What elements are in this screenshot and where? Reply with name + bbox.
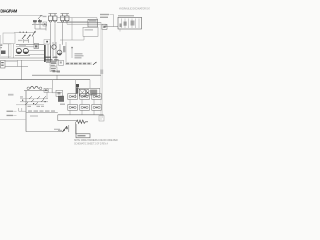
wire long bus upper [32,74,101,76]
wire fuse F3 lead [62,23,64,45]
resistor R1 [76,120,88,123]
wire fuse F1 lead [50,23,52,45]
connector trunk end [99,116,104,122]
lamp L2 [86,89,89,92]
wire mid bus 2 [16,46,34,48]
svg-text:NOTE: WIRE HARNESS COLOR CODE: NOTE: WIRE HARNESS COLOR CODE PER [74,139,118,142]
connector CN4 [59,60,64,65]
wire gauge lead [13,44,15,58]
horn H1 [33,20,37,21]
wire solenoid bus [58,114,104,116]
node ring right [39,87,42,90]
connector hatch bar [63,46,65,52]
motor M3 [52,45,56,49]
node trunk splice [100,70,103,75]
motor M1 [16,48,21,53]
fuse F1 [49,14,53,23]
fuse F3 [61,14,65,23]
label motors [19,44,26,45]
svg-text:HYDRAULIC EXCAVATOR SYS: HYDRAULIC EXCAVATOR SYS [119,8,150,11]
solenoid SV6 [92,105,102,111]
wire horn bus [32,24,47,26]
wire cn3 top [5,60,18,62]
connector CN5 [43,22,47,26]
wire label riser b [21,108,23,111]
wire lower run [26,112,58,114]
wire solenoid links [70,99,94,114]
box control unit outline [52,80,62,93]
label To cab harness [100,14,109,15]
switch S1 block [1,44,12,57]
wire label riser a [18,108,20,111]
wire top rule [0,15,43,17]
switch blades [25,96,46,105]
solenoid SV1 [68,94,78,100]
switch bank rows [20,98,48,100]
connector CN8 [49,89,53,93]
label note faint [30,115,38,116]
wire branch right [104,24,118,26]
wire horn leads [35,25,46,31]
wire relay lead [119,29,121,32]
resistor block R2 [90,90,97,96]
relay box K2 outline [83,27,98,36]
diode D2 [27,35,31,43]
wire fuse F2 lead [54,23,56,45]
junction bus bar J1 [44,45,46,62]
switch S4 [56,90,63,96]
wire bus row d [5,59,44,61]
wire left margin stub [0,35,2,44]
flasher unit FL1 [38,15,42,21]
fuse F2 [53,14,57,23]
connector CN6 [44,40,50,45]
solenoid SV3 [92,94,102,100]
box battery B1 outline [3,33,15,43]
wire motor base [15,55,30,57]
diode D4 [93,62,97,65]
wire fuse top tie 2 [61,13,70,15]
wire gauge base [24,90,48,92]
page background [0,0,150,150]
label FL1 [43,16,47,17]
label bottom faint [54,129,60,130]
coil gauge arcs [30,86,34,89]
wire diode feed [14,32,36,34]
node tick 2 [22,32,25,33]
wire stub bottom left [0,119,26,121]
wire bus link [56,75,58,80]
label To fuel sender [7,111,14,112]
label diode bank [18,40,23,41]
wire bus row c [0,57,44,59]
node tick 3 [25,32,28,33]
wire main drop left [25,91,27,132]
wire fuse F4 lead [66,23,68,24]
wire label tie [19,110,26,112]
resistor R3 small [58,130,62,131]
wire drop a [17,60,19,67]
wire lamp end drop [99,88,101,96]
wire drop cn7 [46,92,48,99]
wire box right edge [75,80,77,98]
label solenoid block [60,104,65,105]
solenoid SV2 [80,94,90,100]
wire fuse top tie 1 [49,13,58,15]
wire mid bus 1 [16,44,44,46]
motor M2 [23,48,28,53]
wire bus row b [28,54,44,56]
lamp box L1 [79,89,85,96]
connector CN3 [1,61,6,69]
label left small [8,94,14,96]
wire drop b [21,60,23,80]
wire label leader [110,14,114,16]
horn H2 [38,20,42,21]
motor M4 [57,50,62,55]
wire bottom run [26,131,62,133]
node splice marks [53,70,56,72]
node specks [22,100,23,101]
wire ground drop [74,122,76,134]
wire upper loop [57,18,97,40]
connector CN7 [44,88,48,92]
label instrument row [65,62,92,65]
switch S3 [34,44,39,49]
diode D3 [32,31,36,44]
note text block [75,53,83,54]
wire stub vert [68,125,70,132]
wire lamp drop [89,80,91,89]
label To water temp [7,115,14,116]
solenoid SV4 [68,105,78,111]
ground box GND [76,134,90,138]
wire vertical trunk right [100,23,102,121]
wire long bus lower [0,79,90,81]
lamp L3 [86,93,89,96]
wire harness verticals [48,42,66,62]
svg-text:SCHEMATIC SHEET 2 OF 2 REV A: SCHEMATIC SHEET 2 OF 2 REV A [74,142,108,145]
wire lamp feed [76,87,100,89]
label To main harness [100,17,108,18]
solenoid SV5 [80,105,90,111]
connector CN1 [88,19,98,27]
fuse F4 [65,14,69,23]
wire sense lead [71,47,73,59]
terminal box T1 [50,60,57,66]
wire feed bus lower [67,23,106,25]
svg-text:DIAGRAM: DIAGRAM [0,9,17,14]
wire switch lead [8,44,10,58]
diode D1 [22,35,26,43]
wire label drop [113,15,115,27]
wire feed bus upper [57,22,101,24]
connector CN2 [102,24,107,29]
wire to resistor [58,120,76,122]
label cluster rows [44,57,51,59]
relay box K1 [118,17,142,29]
wire cn3 bottom [5,66,28,68]
dark connector stub [58,96,64,102]
diode D5 [63,126,68,132]
node ring left [27,87,30,90]
wire bus row a [28,50,44,52]
label switch ids [28,106,32,107]
terminal box T2 [50,67,57,72]
wire bus drop [57,115,59,121]
fuse block dark bar [76,84,79,87]
label wire codes [28,110,32,111]
node tick 1 [19,32,22,33]
